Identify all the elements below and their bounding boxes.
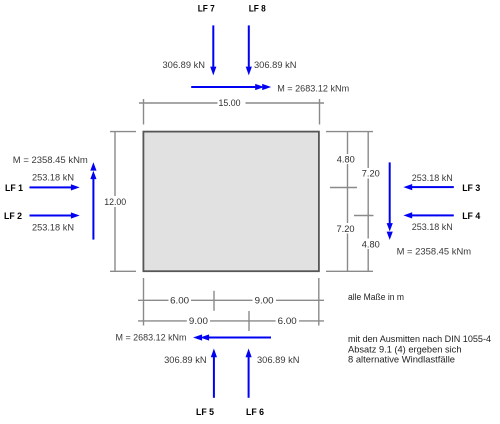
left dimension line 12.00 bbox=[114, 132, 116, 196]
load arrow LF 8 (down) bbox=[248, 25, 250, 67]
left dimension tick bottom bbox=[110, 270, 136, 272]
load arrow LF 2 (right) bbox=[30, 215, 72, 217]
svg-text:mit den Ausmitten nach DIN 105: mit den Ausmitten nach DIN 1055-4 bbox=[348, 334, 491, 345]
svg-text:LF 8: LF 8 bbox=[249, 4, 266, 15]
svg-text:306.89 kN: 306.89 kN bbox=[163, 60, 206, 71]
svg-text:253.18 kN: 253.18 kN bbox=[412, 173, 453, 184]
right dimension tick top bbox=[326, 131, 373, 133]
svg-text:M = 2358.45 kNm: M = 2358.45 kNm bbox=[397, 247, 472, 258]
top dimension extension line left bbox=[143, 99, 145, 125]
bottom dimension row1 line (6.00/9.00) bbox=[138, 299, 169, 301]
svg-text:LF 5: LF 5 bbox=[196, 407, 215, 418]
bottom row2 middle tick at 9m bbox=[248, 311, 250, 331]
left dimension tick top bbox=[110, 131, 136, 133]
left moment arrow M=2358.45 (up, double head) bbox=[92, 176, 94, 240]
svg-text:LF 6: LF 6 bbox=[246, 407, 264, 418]
svg-text:M = 2358.45 kNm: M = 2358.45 kNm bbox=[13, 155, 88, 166]
svg-text:LF 2: LF 2 bbox=[4, 211, 22, 222]
svg-text:alle Maße in m: alle Maße in m bbox=[348, 292, 404, 303]
svg-text:306.89 kN: 306.89 kN bbox=[254, 60, 297, 71]
svg-text:306.89 kN: 306.89 kN bbox=[164, 355, 207, 366]
svg-text:M = 2683.12 kNm: M = 2683.12 kNm bbox=[116, 332, 187, 343]
top moment arrow M=2683.12 (right, double head) bbox=[191, 86, 257, 88]
svg-text:9.00: 9.00 bbox=[255, 296, 274, 306]
svg-text:LF 3: LF 3 bbox=[462, 183, 480, 194]
svg-text:M = 2683.12 kNm: M = 2683.12 kNm bbox=[277, 83, 349, 94]
svg-text:7.20: 7.20 bbox=[362, 169, 380, 179]
svg-text:6.00: 6.00 bbox=[170, 296, 189, 306]
svg-text:9.00: 9.00 bbox=[189, 316, 208, 326]
load arrow LF 4 (left) bbox=[412, 214, 454, 216]
svg-text:306.89 kN: 306.89 kN bbox=[257, 355, 300, 366]
right dimension line A (4.80/7.20) bbox=[347, 132, 349, 154]
bottom row1 middle tick at 6m bbox=[213, 291, 215, 311]
right moment arrow M=2358.45 (down, double head) bbox=[389, 162, 391, 225]
right dimension line B (7.20/4.80) bbox=[367, 132, 369, 168]
svg-text:253.18 kN: 253.18 kN bbox=[412, 222, 453, 233]
svg-text:LF 1: LF 1 bbox=[5, 183, 24, 194]
load arrow LF 1 (right) bbox=[30, 186, 72, 188]
bottom moment arrow M=2683.12 (left, double head) bbox=[207, 337, 271, 339]
svg-text:7.20: 7.20 bbox=[337, 224, 355, 234]
svg-text:253.18 kN: 253.18 kN bbox=[32, 223, 74, 234]
svg-text:6.00: 6.00 bbox=[278, 316, 297, 326]
top dimension extension line right bbox=[319, 99, 321, 125]
bottom extension line left bbox=[143, 278, 145, 326]
load arrow LF 3 (left) bbox=[412, 186, 454, 188]
right dimension tick at LF3 line bbox=[330, 187, 357, 189]
svg-text:12.00: 12.00 bbox=[104, 197, 126, 207]
load arrow LF 7 (down) bbox=[212, 25, 214, 67]
top dimension line 15.00 bbox=[139, 102, 218, 104]
right dimension tick bottom bbox=[326, 270, 373, 272]
bottom dimension row2 line (9.00/6.00) bbox=[138, 320, 187, 322]
svg-text:4.80: 4.80 bbox=[337, 155, 355, 165]
right dimension tick at LF4 line bbox=[354, 215, 374, 217]
svg-text:LF 7: LF 7 bbox=[198, 4, 215, 15]
load arrow LF 6 (up) bbox=[248, 356, 250, 398]
bottom extension line right bbox=[318, 278, 320, 326]
load arrow LF 5 (up) bbox=[213, 356, 215, 398]
svg-text:253.18 kN: 253.18 kN bbox=[32, 173, 74, 184]
svg-text:LF 4: LF 4 bbox=[462, 211, 481, 222]
building outline (plan rectangle) bbox=[143, 132, 319, 272]
svg-text:8 alternative Windlastfälle: 8 alternative Windlastfälle bbox=[348, 355, 455, 366]
svg-text:4.80: 4.80 bbox=[362, 239, 380, 249]
svg-text:15.00: 15.00 bbox=[219, 98, 241, 108]
